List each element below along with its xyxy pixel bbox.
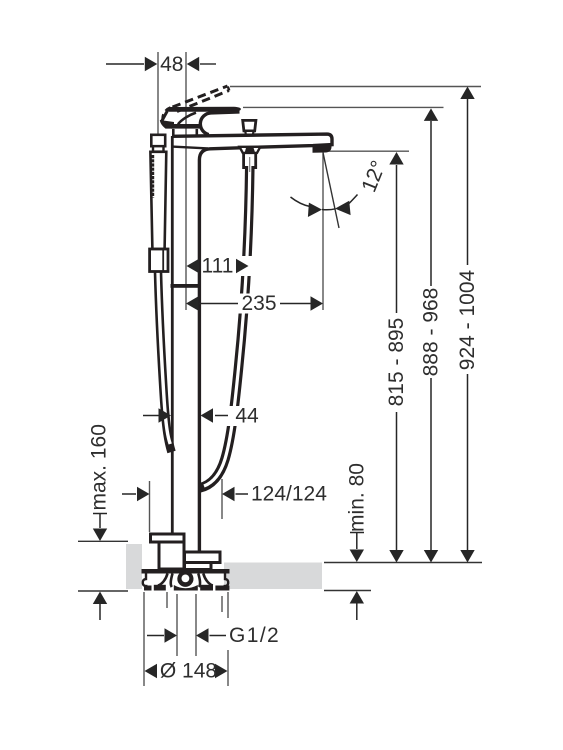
flange right ear xyxy=(224,573,229,586)
dashed raised lever upper xyxy=(173,86,228,107)
dimension min. 80 xyxy=(350,533,364,621)
extension line 124 left xyxy=(149,481,151,532)
dimension 44 xyxy=(143,408,228,422)
svg-text:G1/2: G1/2 xyxy=(229,624,280,647)
dimension 111 xyxy=(234,256,253,276)
flange top plate xyxy=(142,569,230,574)
spout underside across column xyxy=(172,147,208,149)
floor ref line left bottom xyxy=(78,590,128,592)
dimension diameter 148 xyxy=(145,664,228,678)
floor line right top xyxy=(324,562,482,564)
svg-text:235: 235 xyxy=(241,292,276,315)
handshower hose right loop xyxy=(200,166,250,488)
reference line spout outlet xyxy=(325,150,409,152)
body neck sides xyxy=(172,129,175,136)
reference line dashed lever tip xyxy=(230,86,481,88)
hose connector tube xyxy=(242,153,245,169)
svg-text:888 - 968: 888 - 968 xyxy=(420,288,443,377)
handle escutcheon bar xyxy=(171,124,200,129)
extension stub left under flange xyxy=(166,592,168,608)
svg-text:815 - 895: 815 - 895 xyxy=(385,318,408,407)
handshower holder cap xyxy=(151,135,165,146)
pivot body left slant edge xyxy=(162,109,169,122)
center line shower axis xyxy=(157,52,159,147)
dashed lever tip cap xyxy=(228,87,230,91)
flange left claws xyxy=(158,574,173,588)
extension line 124 right xyxy=(221,479,223,519)
flange center ring xyxy=(177,571,193,587)
svg-text:44: 44 xyxy=(235,405,259,428)
base left body box xyxy=(159,542,184,569)
pivot sweep curve xyxy=(178,113,196,125)
dimension line 815-895 xyxy=(389,152,403,563)
angle 12 deg slant line xyxy=(323,153,339,229)
base right cap box xyxy=(185,552,221,563)
extension line G1/2 left xyxy=(176,594,178,656)
extension line spout tip for 235 xyxy=(322,154,324,311)
column joint ring xyxy=(171,284,201,288)
lever solid xyxy=(169,107,241,112)
dimension max. 160 xyxy=(93,514,107,621)
svg-text:max. 160: max. 160 xyxy=(88,424,111,510)
dashed heel arc xyxy=(163,108,171,124)
handshower hose left xyxy=(158,272,172,452)
dimension line 924-1004 xyxy=(460,87,474,563)
extension line d148 right xyxy=(227,592,229,618)
handshower cap lower lip xyxy=(153,146,164,151)
extension line G1/2 right xyxy=(195,594,197,656)
svg-text:48: 48 xyxy=(160,53,183,76)
handshower wand xyxy=(150,152,166,249)
handshower hose nut xyxy=(150,249,168,272)
dimension line 888-968 xyxy=(424,108,438,562)
dimension 48 xyxy=(106,57,216,71)
flange bottom feet xyxy=(144,585,229,591)
center line column axis xyxy=(185,52,187,310)
lever grip loop (left cap + top edge; bottom edge = spout top line) xyxy=(200,112,239,135)
svg-text:min. 80: min. 80 xyxy=(345,463,368,532)
svg-text:924 - 1004: 924 - 1004 xyxy=(456,269,479,370)
dimension 124/124 xyxy=(122,487,248,501)
svg-text:12°: 12° xyxy=(357,157,390,195)
dashed raised lever lower xyxy=(177,91,229,112)
knob foot xyxy=(245,131,253,135)
dimension G1/2 xyxy=(147,628,226,642)
extension line d148 left xyxy=(143,592,145,686)
flange right claws xyxy=(198,574,213,588)
base right body box xyxy=(185,563,212,570)
aerator tip xyxy=(313,144,332,153)
svg-text:111: 111 xyxy=(202,255,234,278)
floor gray band right xyxy=(224,563,322,590)
floor ref line left top xyxy=(78,540,128,542)
angle 12 deg arcs with arrows xyxy=(291,195,358,210)
column pipe left edge xyxy=(171,136,174,533)
base left cap box xyxy=(151,534,185,542)
spout body outline with pipe right edge xyxy=(172,134,332,553)
dimension 235 xyxy=(186,296,323,310)
floor line right bottom xyxy=(324,590,371,592)
extension stub right under flange xyxy=(221,596,223,612)
flange left ear xyxy=(143,573,148,586)
handshower spray strip xyxy=(150,155,154,198)
hose outlet funnel xyxy=(240,147,261,153)
diverter knob xyxy=(243,120,256,130)
lever heel xyxy=(160,120,174,129)
reference line solid lever top xyxy=(243,106,444,108)
svg-text:Ø 148: Ø 148 xyxy=(160,660,217,683)
svg-text:124/124: 124/124 xyxy=(251,483,327,506)
floor gray band left xyxy=(126,544,142,589)
